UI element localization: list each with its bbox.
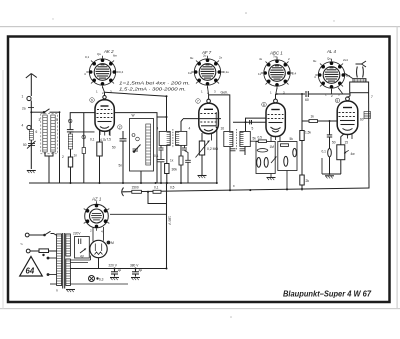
svg-text:1k: 1k [311,115,315,119]
svg-text:50: 50 [112,146,116,150]
electrolytic oval 3 [284,156,288,166]
wire x302 to bus [301,185,303,191]
output transformer winding bar [353,79,366,82]
svg-text:4: 4 [22,124,24,128]
svg-text:2: 2 [288,57,290,61]
svg-text:0,5: 0,5 [258,136,263,140]
rectifier socket AZ1 [84,201,110,231]
ground transformer [66,290,75,293]
svg-text:5k: 5k [290,137,294,141]
junction filter [114,268,116,270]
svg-text:6: 6 [36,130,38,134]
oval cap horizontal [257,149,268,152]
svg-text:7,5: 7,5 [107,138,112,142]
svg-text:8: 8 [263,103,265,107]
tube socket AF7 [191,56,223,88]
tube socket AK2 [86,56,118,88]
svg-text:4: 4 [101,230,103,234]
grid leak branch [185,151,191,184]
junction dots bus A [30,111,218,184]
scan edge line top [0,26,400,27]
svg-text:9u: 9u [190,56,194,60]
resistor R6 on x302 [300,175,304,185]
IF T1 trimmer right cap [182,145,187,150]
svg-text:5k: 5k [253,137,257,141]
wire osc to tube1 grid [70,131,94,133]
svg-text:3,4: 3,4 [346,74,351,78]
svg-text:60: 60 [305,98,309,102]
svg-text:2u: 2u [203,54,207,58]
tiny labels around socket ABC1 [258,55,297,77]
svg-text:2: 2 [62,155,64,159]
tiny labels around socket AK2 [84,52,124,76]
ground bus A [29,182,217,184]
wire top cap feed across [105,92,167,96]
bias box right of tube4 [337,145,349,160]
tube V3 top cap [274,94,278,103]
svg-text:~: ~ [20,242,23,248]
svg-text:220V: 220V [73,232,81,236]
tube2 second pin stub [211,134,213,141]
svg-text:50: 50 [23,143,27,147]
tube V2 envelope [183,103,221,134]
svg-text:0,1: 0,1 [322,150,327,154]
wire R3 to bus [166,174,168,184]
antenna coil L1 [29,130,33,141]
wire T2 secondary top to tube3 [233,118,266,131]
ground filter caps [110,278,119,281]
filter cap 2 [132,269,139,277]
svg-text:2x: 2x [219,56,223,60]
wire AZ1 socket to rectifier left [92,227,94,242]
svg-text:1,5·2,2mA · 300·2000 m.: 1,5·2,2mA · 300·2000 m. [119,87,186,92]
tube V1 AK2 envelope [95,100,114,131]
svg-text:7: 7 [371,95,373,99]
svg-text:4: 4 [157,127,159,131]
svg-text:5n: 5n [119,164,123,168]
antenna lead wire [30,101,32,170]
fuse on bus B [153,190,161,193]
coupling capacitor C tone [306,91,308,97]
wire AZ1 to B-plus vertical [110,213,167,215]
heater wire rect up [90,256,92,261]
svg-text:4w: 4w [351,152,356,156]
wire cluster top [250,140,258,142]
osc box coil [146,124,151,165]
wire B-plus vertical drop [166,96,168,131]
tube V1 top cap [103,93,106,99]
vertical x329 [329,121,331,135]
wire bias box bottom [340,160,342,174]
tube socket AL4 [315,59,347,91]
wire bias box top [341,134,344,145]
IF transformer T1 primary [159,131,170,145]
mains terminal 2 [26,249,30,253]
wire x329 mid [329,137,331,149]
wire rectifier output down [98,258,100,269]
svg-text:15: 15 [345,141,349,145]
junction osc top [166,116,168,118]
svg-text:60: 60 [360,118,364,122]
ground filter cap2 [131,278,140,281]
power transformer primary winding [57,234,62,286]
wire antenna to band switch [31,111,43,113]
svg-text:0,1: 0,1 [154,186,159,190]
wire grid top [69,127,71,158]
trimmer cap left [27,141,36,149]
socket AL4 pin wire [332,74,353,94]
oscillator section top wire [70,113,166,183]
cap on x329 [327,135,332,137]
osc box cap [133,149,139,151]
junction at x329 [329,120,331,122]
tube V2 number label [196,99,201,104]
svg-text:0,1: 0,1 [154,154,159,158]
wire x302 middle [301,141,303,176]
mains terminal 1 [25,233,29,237]
resistor horizontal in cluster [258,140,266,143]
electrolytic oval 1 [257,158,261,168]
svg-text:180 V: 180 V [168,216,172,226]
junction anode feed [301,93,303,95]
svg-text:1µ: 1µ [118,268,122,272]
resistor R1 [68,157,72,167]
ground antenna [27,171,36,174]
filter cap 1 [111,269,118,277]
power transformer secondary upper [66,234,71,256]
hatched box right of tube4 [364,112,371,119]
screen resistor horizontal [302,120,338,123]
wire T1 secondary bottom to bus [180,145,182,183]
wire tube3 top cap across [276,93,306,95]
wire R2 to bus [99,156,101,183]
svg-text:M: M [111,241,114,245]
small resistor in right box [281,144,289,147]
svg-text:1=1,5mA bei 4xx · 200 m.: 1=1,5mA bei 4xx · 200 m. [119,81,190,86]
tiny labels around socket AL4 [313,57,351,80]
svg-text:1M: 1M [270,145,275,149]
tube V3 envelope [266,103,285,137]
svg-text:2x4: 2x4 [343,58,348,62]
wire x329 lower [329,157,331,174]
svg-text:30k: 30k [172,168,178,172]
svg-text:n: n [56,289,58,293]
svg-text:3: 3 [214,90,216,94]
wire cap to speaker line [308,93,350,95]
svg-text:1: 1 [22,95,24,99]
IF transformer T2 primary [224,132,233,147]
small cap on branch [82,148,85,154]
svg-text:5: 5 [56,118,58,122]
tube socket ABC1 [261,57,293,89]
svg-text:5: 5 [336,99,338,103]
power transformer secondary lower [66,259,71,286]
tiny pin numbers under sockets [90,90,340,234]
osc box switch [132,134,141,153]
svg-text:9: 9 [91,99,93,103]
heater wire 1 [70,259,90,261]
trimmer circle on branch [82,135,86,139]
input coil winding W2 [51,115,55,152]
speaker coil lines [357,67,364,78]
svg-text:1n: 1n [74,154,78,158]
svg-text:2,4: 2,4 [292,72,297,76]
fuse mains [39,249,49,256]
wire coil bottoms to bus [45,152,53,183]
mains wire 2 [30,250,39,252]
tube4 cathode stub [348,134,353,139]
svg-text:AL 4: AL 4 [326,49,337,54]
junction dots bus B [166,95,331,269]
wire tube2 cathode lead [201,133,203,141]
socket ABC1 pin stub [276,88,277,94]
resistor R3 [165,164,169,174]
svg-text:Qu: Qu [97,52,101,56]
tuning capacitor C1 variable [67,130,74,132]
potentiometer R4 [196,141,210,158]
svg-text:7: 7 [197,100,199,104]
svg-text:7m: 7m [273,55,278,59]
capacitor below T1 [158,160,165,184]
svg-text:1x: 1x [170,159,174,163]
tube V4 number label [335,98,340,103]
volume pot arrow [271,157,277,164]
svg-text:Geh.: Geh. [221,91,229,95]
svg-text:1,5k: 1,5k [305,131,311,135]
output transformer box [350,82,369,93]
tube V1 number label [90,98,95,103]
rectifier dot label [107,241,114,245]
band switch S1 [43,109,49,113]
filter wire y270 [70,268,166,270]
dust speck 1 [245,12,247,14]
wire T2 primary bottom down [229,147,231,191]
primary tap wires [47,257,57,284]
resistor on bus B [132,190,142,193]
svg-text:AZ 1: AZ 1 [91,197,102,202]
svg-text:4µ: 4µ [139,268,143,272]
ground below tube2 [198,176,207,179]
svg-text:2a: 2a [22,107,26,111]
svg-text:0,1: 0,1 [90,138,95,142]
speaker cone [356,61,367,67]
svg-text:0,1u: 0,1u [223,70,229,74]
svg-text:2: 2 [119,126,121,130]
label circle c2 [118,125,122,130]
wire tube1 right lead [109,129,111,136]
wire tube1 cathode resistor lead [99,130,101,142]
mains wire 2b [49,250,57,252]
wire OPT left to tube4 cap [348,93,351,98]
wire cluster bottom to ground [270,174,272,178]
oscillator coil L2 [68,134,72,149]
svg-text:4: 4 [84,72,86,76]
svg-text:6m: 6m [113,54,118,58]
wire right box to bus [286,171,288,191]
IF T2 trimmer caps [230,149,245,151]
tube V4 top cap [346,97,350,101]
svg-text:2: 2 [90,229,92,233]
svg-text:2k: 2k [306,179,310,183]
tube V2 top cap [207,95,211,103]
svg-text:1: 1 [270,91,272,95]
AVC line vertical [216,127,218,183]
wire T2 secondary bottom [244,147,246,156]
input coil winding W1 [43,115,47,152]
power transformer core [63,233,65,289]
scattered value labels [22,95,374,293]
svg-text:64: 64 [26,267,35,276]
svg-text:16: 16 [221,127,225,131]
wire R4 to ground [201,155,203,175]
antenna terminal A2 [27,125,31,129]
junction bus A x166 [166,182,168,184]
svg-text:W: W [132,114,135,118]
rectifier tube V5 [90,240,107,257]
Geh label arrow [209,91,230,132]
capacitor C2 [120,131,127,183]
resistor R2 below tube1 [97,142,102,156]
scan edge line left [3,70,4,309]
wire switch to coils [50,111,60,113]
dust speck 3 [52,18,53,19]
tube V3 number label [262,102,267,107]
svg-text:3: 3 [39,118,41,122]
wire T1 secondary top to tube2 grid [181,119,183,131]
trimmer circle on riser [68,119,72,123]
stub x322 [321,158,323,174]
electrolytic oval 2 [264,158,268,168]
IF T2 core [235,129,237,150]
wire AZ1 socket to rectifier right [103,227,105,241]
svg-text:0,1: 0,1 [85,55,90,59]
tiny labels around socket AF7 [188,54,229,76]
socket AK2 pin stub [103,87,105,93]
svg-text:5: 5 [252,127,254,131]
voltage selector box [75,237,90,259]
socket AF7 pin stub [208,87,209,95]
tube1 bottom pin stubs [100,131,109,136]
anode feed vertical x302 [301,94,303,131]
electrolytic on x329 [328,149,332,157]
border frame [8,37,390,303]
IF T1 core [172,129,174,148]
padding branch x84 [83,113,85,183]
detector cluster box right [278,142,297,171]
svg-text:1x: 1x [258,72,262,76]
dial lamp [89,276,99,282]
IF transformer T1 secondary [176,131,187,145]
wire right branch vertical [59,112,61,183]
wire horizontal y174 [322,173,341,175]
detector cluster box left [256,142,275,174]
bus B speaker line [123,188,370,192]
svg-text:1: 1 [96,90,98,94]
ground x329 [325,176,334,179]
terminal tick 2a [28,107,34,109]
svg-text:2: 2 [331,94,333,98]
svg-text:0,4: 0,4 [119,70,124,74]
antenna symbol [26,74,37,97]
drop from junction [148,192,167,204]
B-plus vertical lower [166,183,168,269]
svg-text:4,7k: 4,7k [100,138,106,142]
resistor on T1 secondary lead [179,156,183,165]
svg-text:Blaupunkt–Super 4 W 67: Blaupunkt–Super 4 W 67 [283,290,372,299]
svg-text:1: 1 [201,90,203,94]
svg-text:Qu: Qu [327,57,331,61]
oscillator box [130,119,154,172]
wire OPT right down long [368,93,370,188]
svg-text:9u: 9u [313,59,317,63]
DIN triangle 64 [20,257,43,277]
mains wire 1 [29,234,44,236]
antenna terminal A1 [27,96,31,100]
junction bus B [147,191,149,193]
svg-text:50: 50 [332,141,336,145]
bus B left bracket [122,188,124,197]
mains switch [44,231,51,236]
svg-text:4: 4 [189,127,191,131]
svg-text:380 V: 380 V [130,264,139,268]
dust speck 2 [333,20,334,21]
svg-text:1500: 1500 [132,186,139,190]
mains wire 1b [51,234,57,236]
IF transformer T2 secondary [240,132,250,147]
tube3 bottom pin stubs [271,136,280,141]
heater wire 3 [70,283,128,285]
svg-text:6,3: 6,3 [99,278,104,282]
svg-text:4: 4 [314,75,316,79]
heater wire 2 [70,262,88,264]
scan edge line right [397,26,398,309]
svg-text:2: 2 [102,91,104,95]
svg-text:220 V: 220 V [109,264,118,268]
scan edge line bottom [0,308,400,309]
IF T1 trimmer left [159,145,164,159]
tube V4 envelope [337,101,358,135]
wire T1 primary bottom [166,145,168,164]
band coil dashed box [41,113,58,154]
dust speck 4 [230,316,232,318]
ground below cluster [267,178,276,181]
wire osc box to bus [140,171,142,183]
svg-text:x: x [233,184,235,188]
electrolytic oval 4 [293,148,297,156]
resistor R5 on x302 [300,131,304,141]
wire R1 to bus [70,167,72,183]
svg-text:4x: 4x [259,57,263,61]
svg-text:0,5: 0,5 [170,186,175,190]
